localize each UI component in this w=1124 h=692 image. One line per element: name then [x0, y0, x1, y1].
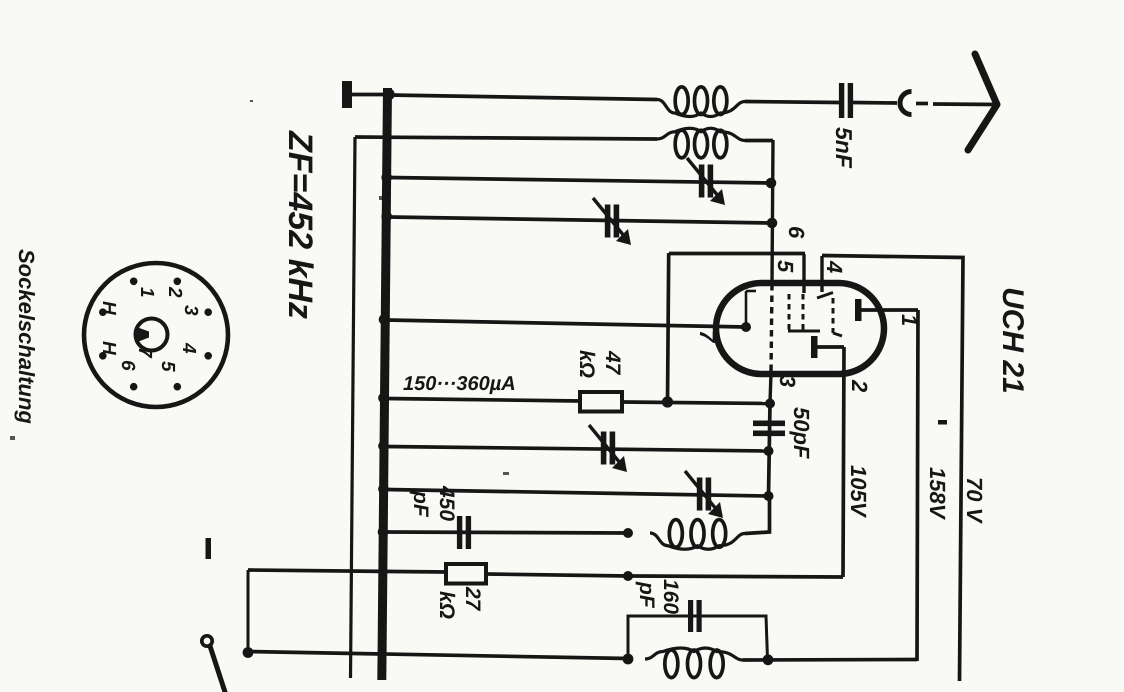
- svg-text:6: 6: [117, 360, 138, 371]
- svg-text:27: 27: [461, 586, 484, 612]
- svg-text:2: 2: [847, 379, 872, 393]
- svg-text:158V: 158V: [925, 467, 950, 521]
- svg-text:7: 7: [695, 330, 720, 344]
- svg-text:H: H: [98, 301, 119, 316]
- svg-text:ZF=452 kHz: ZF=452 kHz: [281, 130, 319, 319]
- svg-text:pF: pF: [409, 490, 432, 518]
- svg-text:160: 160: [659, 579, 682, 614]
- svg-text:2: 2: [164, 286, 185, 298]
- svg-text:kΩ: kΩ: [575, 350, 598, 378]
- svg-text:150···360µA: 150···360µA: [403, 373, 516, 395]
- svg-text:5nF: 5nF: [831, 127, 857, 169]
- svg-text:H: H: [98, 341, 119, 356]
- svg-text:5: 5: [157, 361, 178, 372]
- svg-text:3: 3: [775, 375, 800, 387]
- svg-text:1: 1: [136, 287, 157, 298]
- svg-text:UCH 21: UCH 21: [996, 287, 1029, 394]
- svg-text:5: 5: [773, 260, 798, 273]
- svg-text:450: 450: [435, 485, 458, 521]
- svg-text:70 V: 70 V: [962, 477, 987, 525]
- svg-text:7: 7: [134, 347, 155, 359]
- svg-text:4: 4: [822, 260, 847, 273]
- svg-text:105V: 105V: [846, 465, 871, 519]
- svg-text:47: 47: [601, 350, 624, 376]
- svg-text:50pF: 50pF: [789, 407, 814, 459]
- svg-text:4: 4: [178, 342, 199, 354]
- svg-text:6: 6: [784, 226, 809, 239]
- svg-text:kΩ: kΩ: [435, 591, 458, 619]
- svg-text:3: 3: [180, 305, 201, 316]
- svg-text:pF: pF: [635, 581, 658, 609]
- svg-text:Sockelschaltung: Sockelschaltung: [14, 249, 39, 424]
